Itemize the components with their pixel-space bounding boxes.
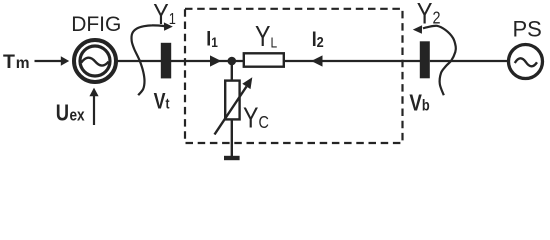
wire node to YC bbox=[231, 63, 233, 82]
svg-text:Tm: Tm bbox=[3, 51, 30, 73]
svg-text:Vt: Vt bbox=[154, 90, 170, 114]
curved arrow Y2 bbox=[413, 25, 456, 95]
svg-text:Y1: Y1 bbox=[153, 0, 176, 30]
svg-text:DFIG: DFIG bbox=[71, 13, 121, 36]
variable arrow through YC bbox=[215, 77, 253, 134]
label I2 bbox=[312, 28, 324, 52]
dashed box (network section) bbox=[185, 9, 403, 143]
wire YL to bus Vb bbox=[284, 60, 420, 62]
wire bus Vb to PS bbox=[430, 60, 509, 62]
resistor YL (series admittance) bbox=[244, 53, 284, 66]
label Vb bbox=[409, 89, 429, 116]
bus bar Vb bbox=[420, 41, 430, 78]
label Y2 bbox=[417, 0, 441, 30]
svg-text:PS: PS bbox=[513, 16, 542, 41]
label Uex bbox=[56, 101, 85, 126]
arrow Uex excitation (upward) bbox=[89, 88, 98, 125]
node junction dot bbox=[228, 57, 237, 66]
label Y1 bbox=[153, 0, 176, 30]
label YC bbox=[243, 101, 269, 134]
svg-text:Vb: Vb bbox=[409, 89, 429, 116]
curved arrow Y1 bbox=[131, 22, 172, 95]
wire bus Vt to YL bbox=[171, 60, 244, 62]
wire YC to ground bbox=[231, 119, 233, 156]
arrowhead I1 (current into line) bbox=[210, 55, 221, 66]
svg-text:YL: YL bbox=[255, 20, 278, 53]
svg-text:I1: I1 bbox=[206, 27, 218, 51]
generator PS (power system source) bbox=[509, 45, 543, 79]
svg-text:Uex: Uex bbox=[56, 101, 85, 126]
label Vt bbox=[154, 90, 170, 114]
arrowhead I2 (current from PS) bbox=[311, 55, 322, 66]
label I1 bbox=[206, 27, 218, 51]
svg-text:I2: I2 bbox=[312, 28, 324, 52]
resistor YC (variable shunt admittance) bbox=[225, 81, 239, 120]
svg-text:Y2: Y2 bbox=[417, 0, 441, 30]
bus bar Vt bbox=[161, 43, 171, 79]
wire DFIG to bus Vt bbox=[115, 60, 161, 62]
arrow Tm input bbox=[35, 56, 70, 65]
ground bbox=[224, 156, 240, 160]
label YL bbox=[255, 20, 278, 53]
svg-text:YC: YC bbox=[243, 101, 269, 134]
generator DFIG (double circle with sine) bbox=[74, 40, 116, 82]
label Tm (mechanical torque) bbox=[3, 51, 30, 73]
